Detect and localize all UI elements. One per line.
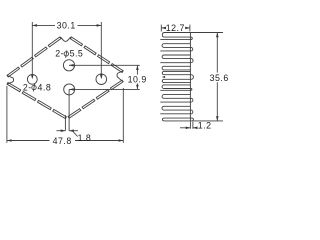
dim 1.2 extensions (189, 122, 191, 129)
top view: fin slot strips, top-left edge (7, 37, 61, 77)
svg-text:12.7: 12.7 (166, 23, 185, 33)
side: channel left point mark (162, 76, 165, 78)
side: fin fold bars capped at left (162, 44, 190, 110)
dim 12.7 extensions (160, 25, 162, 32)
side: bottom fold pair (162, 118, 190, 121)
dim 47.8 left extension (6, 86, 8, 143)
dim line 35.6 (216, 33, 218, 73)
side: middle channel fold (right bulge cap) (190, 75, 193, 80)
bottom hole center line to right (10.9 bottom extension) (69, 88, 140, 90)
bottom channel slot lines / 1.8 extension lines (64, 115, 66, 131)
dim 30.1 right extension with arrow to right hole center (100, 22, 102, 77)
dim 35.6 top extension (192, 32, 224, 34)
svg-text:5.5: 5.5 (70, 49, 84, 59)
top hole center line to right (10.9 top extension) with arrow at hole center (69, 64, 140, 66)
svg-text:10.9: 10.9 (128, 75, 147, 85)
dim line 12.7 with arrows (161, 27, 165, 29)
top view: fin slot strips, top-right edge (70, 37, 123, 73)
svg-text:1.8: 1.8 (78, 133, 92, 143)
svg-text:2-: 2- (55, 49, 64, 59)
svg-text:4.8: 4.8 (38, 82, 52, 92)
right vertex notch (117, 71, 123, 82)
top vertex notch (wave) (60, 37, 72, 41)
svg-text:2-: 2- (23, 82, 32, 92)
dim line 47.8 (7, 140, 50, 142)
hole top (5.5) (63, 60, 74, 71)
svg-text:35.6: 35.6 (210, 73, 229, 83)
dim 1.2 arrows (180, 127, 190, 129)
svg-text:47.8: 47.8 (53, 136, 72, 146)
top view: fin slot strips, bottom-right edge (68, 80, 123, 118)
dim line 10.9 vertical (136, 65, 138, 74)
hole bottom (4.8) (64, 84, 75, 95)
side: base face (right spine) (189, 33, 191, 121)
top view: fin slot strips, bottom-left edge (7, 83, 66, 119)
svg-text:30.1: 30.1 (57, 21, 76, 31)
leader to 1.8 text (73, 131, 78, 137)
hole right (5.5) (96, 74, 107, 85)
hole left (4.8) (27, 74, 37, 84)
dim line 30.1 (32, 24, 55, 26)
dim 1.8 arrows at bottom slot (57, 130, 66, 132)
side: right fold tabs (190, 37, 193, 121)
dim 30.1 left extension with arrow to left hole center (31, 22, 33, 78)
svg-text:1.2: 1.2 (198, 120, 212, 130)
left vertex notch (7, 75, 14, 84)
bottom hole center line down through slot (68, 89, 70, 112)
side: fin edge long lines (160, 40, 190, 114)
dim 47.8 right extension (122, 88, 124, 143)
side: top plate (162, 33, 212, 38)
dim 35.6 bottom extension (194, 120, 224, 122)
